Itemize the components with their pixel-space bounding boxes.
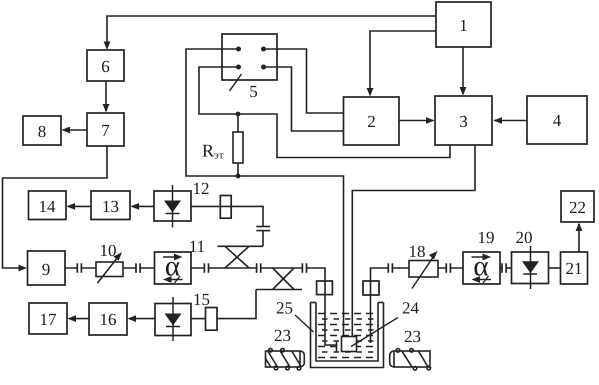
switch 5: [222, 34, 277, 101]
block 2: [344, 97, 400, 145]
resistor R_et: [233, 114, 243, 176]
pad rect row3: [206, 308, 218, 331]
pad rect row1: [220, 196, 231, 219]
diode detector 12: [154, 179, 210, 228]
block 17: [29, 303, 67, 334]
wire from block 1 to block 3: [462, 47, 464, 94]
block 9: [28, 251, 66, 285]
svg-text:8: 8: [38, 122, 47, 141]
bath outer wall: [311, 303, 384, 368]
svg-text:2: 2: [367, 112, 376, 131]
arrow into block 3 from 4: [494, 117, 503, 124]
arrow into block 22: [576, 223, 583, 232]
arrow into block 17: [68, 315, 77, 322]
block 1: [436, 2, 491, 47]
junction R-rail bottom: [236, 174, 241, 179]
wire diode 12 to block 13: [132, 205, 154, 207]
wire lower X valve down to row 3: [217, 290, 256, 319]
svg-text:4: 4: [553, 111, 562, 130]
arrow into block 2 top: [367, 88, 374, 97]
svg-text:5: 5: [249, 82, 258, 101]
arrow into block 3 from 2: [426, 117, 435, 124]
roller 23 left: [266, 348, 305, 370]
row 2 main waveguide wire: [65, 267, 96, 269]
block 22: [561, 191, 594, 222]
arrow into block 6: [104, 42, 111, 51]
bath water dashes: [318, 314, 376, 358]
block 13: [91, 191, 130, 220]
connector pair right row b: [445, 263, 447, 273]
svg-text:10: 10: [100, 241, 117, 260]
svg-text:12: 12: [193, 179, 210, 198]
capacitor plates: [256, 226, 270, 228]
roller 23 right: [390, 349, 431, 371]
svg-text:α: α: [473, 251, 488, 283]
block 6: [87, 50, 124, 81]
block 16: [89, 303, 127, 335]
sample cell 24: [342, 337, 357, 352]
svg-text:16: 16: [100, 310, 117, 329]
variable attenuator 18: [409, 242, 439, 289]
connector pair row2 c: [203, 263, 205, 273]
reflector plate: [336, 341, 338, 352]
connector pair right row c: [501, 263, 503, 273]
connector pair row2 e: [301, 263, 303, 273]
svg-text:23: 23: [404, 327, 421, 346]
wire block 7 to block 8: [63, 129, 87, 131]
connector gaps: [78, 267, 505, 270]
svg-text:3: 3: [459, 112, 468, 131]
svg-text:14: 14: [39, 197, 57, 216]
svg-text:13: 13: [102, 197, 119, 216]
wire block 7 down-left to block 9: [3, 146, 108, 268]
wire block 2 to block 3: [399, 120, 433, 122]
svg-text:15: 15: [193, 290, 210, 309]
block 8: [23, 116, 61, 145]
block 4: [527, 96, 587, 144]
arrow into block 9: [19, 265, 28, 272]
wire switch top-right contact to block 2: [264, 49, 344, 113]
probe square right: [363, 281, 379, 295]
arrow into block 7: [103, 104, 110, 113]
wire diode 15 to pad rect row3: [191, 318, 205, 320]
svg-text:22: 22: [569, 198, 586, 217]
wire block 16 to block 17: [69, 318, 89, 320]
wire capacitor to upper X valve: [262, 231, 264, 247]
svg-text:Rэт: Rэт: [202, 141, 224, 162]
wire from block 1 to block 2: [370, 31, 436, 94]
svg-text:23: 23: [274, 326, 291, 345]
upper X valve: [218, 246, 264, 268]
connector pair right row a: [387, 263, 389, 273]
arrow into block 8: [62, 127, 71, 134]
svg-text:18: 18: [409, 242, 426, 261]
wire from block 1 to block 6: [107, 16, 436, 48]
svg-text:17: 17: [40, 310, 58, 329]
arrow into block 13: [131, 203, 140, 210]
wire block 3 bottom to box 24 (second probe): [352, 145, 475, 337]
block 21: [561, 252, 588, 284]
svg-text:21: 21: [566, 259, 583, 278]
bath inner wall: [316, 303, 378, 362]
block 3: [435, 96, 492, 145]
arrow into block 3 top: [460, 87, 467, 96]
connector pair row2 a: [77, 263, 506, 273]
svg-text:7: 7: [101, 121, 110, 140]
arrowheads: [19, 42, 583, 323]
arrow into block 14: [67, 203, 76, 210]
pointer for 24: [351, 318, 398, 347]
svg-text:1: 1: [459, 16, 468, 35]
wire diode 15 to block 16: [129, 318, 155, 320]
wire block 21 to block 22: [578, 224, 580, 252]
svg-text:20: 20: [516, 228, 533, 247]
svg-text:11: 11: [189, 237, 205, 256]
left probe into bath: [325, 281, 337, 345]
svg-text:25: 25: [276, 299, 293, 318]
wire switch bottom-right contact to block 2: [264, 67, 344, 131]
pointer for 25: [295, 315, 314, 332]
svg-text:α: α: [165, 251, 180, 283]
diode detector 15: [155, 290, 210, 341]
arrow into block 16: [128, 315, 137, 322]
isolator 19: [463, 228, 500, 284]
junction R-rail top: [236, 112, 241, 117]
connector pair row2 d: [256, 263, 258, 273]
variable attenuator 10: [96, 241, 123, 283]
wire block 6 to block 7: [105, 81, 107, 111]
wire switch top-left contact to R-rail and down to box 24: [186, 49, 344, 337]
block 14: [29, 191, 67, 220]
svg-text:6: 6: [101, 57, 110, 76]
right row wire: [371, 268, 410, 281]
block 7: [87, 113, 124, 146]
probe square left: [317, 281, 333, 295]
lower X valve: [256, 268, 302, 290]
wire diode 12 branch right to capacitor: [191, 206, 263, 226]
wire block 13 to block 14: [68, 205, 91, 207]
diode detector 20: [512, 228, 549, 289]
wire block 4 to block 3: [494, 120, 527, 122]
svg-text:19: 19: [478, 228, 495, 247]
svg-text:9: 9: [42, 260, 51, 279]
wire switch bottom-left contact through R top rail to block 3 bottom: [199, 67, 450, 158]
isolator 11: [155, 237, 206, 284]
svg-text:24: 24: [402, 299, 420, 318]
right probe into bath: [370, 281, 372, 343]
connector pair row2 b: [135, 263, 137, 273]
